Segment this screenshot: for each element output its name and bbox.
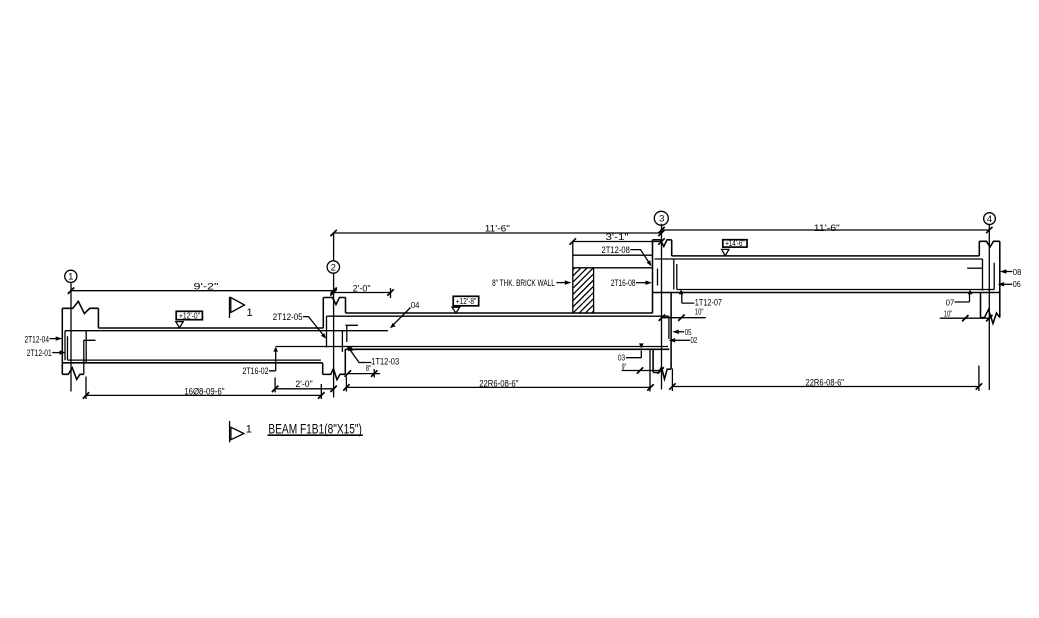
svg-text:10": 10" [944,309,952,319]
label 1T12-07 with leader [682,291,722,309]
label 8" THK. BRICK WALL with leader [492,278,571,289]
svg-text:07: 07 [946,298,955,308]
label 2T16-08 with leader [611,278,652,289]
label 07 with leader [946,292,970,308]
rebar 2T12-08 top bar span 3-4 [655,259,983,291]
svg-text:11'-6": 11'-6" [485,223,510,234]
svg-text:+12'-8": +12'-8" [456,296,477,306]
svg-text:2T16-02: 2T16-02 [243,366,269,377]
column grid 4 [979,241,1000,323]
svg-text:2T12-05: 2T12-05 [273,312,303,323]
dimension 9'-2" [68,281,337,294]
grid line 1 [70,282,72,391]
bar hook tail at grid 4 [967,267,982,269]
label 05 with leader [672,327,691,337]
beam span 3-4 bottom outline [653,292,1000,294]
dimension 22R6-08-6" (span 3-4 stirrups) [669,366,982,392]
bar hook tail at grid 2 [346,325,358,342]
svg-text:08: 08 [1013,267,1022,277]
svg-text:+14'-6": +14'-6" [725,239,745,248]
rebar 2T12-01 bottom bar span 1-2 [68,336,321,360]
dimension 2'-0" (bottom, bar 02 extension) [272,378,337,393]
svg-text:2: 2 [331,262,336,273]
svg-text:10": 10" [695,306,704,316]
label 08 with leader [1000,267,1022,277]
label 04 with leader [390,300,420,329]
svg-text:2T12-04: 2T12-04 [25,334,50,345]
svg-text:1T12-03: 1T12-03 [371,357,399,368]
svg-text:2T16-08: 2T16-08 [611,278,636,289]
svg-text:02: 02 [691,335,698,345]
dimension 10" (left, bar 07) [659,306,706,321]
bar hook inside column 3 [657,269,659,286]
svg-text:4: 4 [987,214,992,225]
svg-text:BEAM F1B1(8"X15"): BEAM F1B1(8"X15") [268,420,362,436]
label 03 with leader [618,351,641,363]
label 1T12-03 with leader [347,345,399,367]
svg-text:1: 1 [68,272,73,283]
bar 07 end arrows [679,289,973,294]
column grid 3 upper [653,240,672,313]
dimension 3'-1" [570,232,665,245]
grid bubble 4 [984,213,996,225]
title BEAM F1B1(8"X15") [268,420,363,436]
dimension 2'-0" (top, bar 04 extension) [330,283,393,298]
svg-text:11'-6": 11'-6" [814,223,840,234]
svg-text:9'-2": 9'-2" [194,281,219,292]
dimension 8" [345,363,380,378]
svg-text:2'-0": 2'-0" [295,379,312,390]
column grid 3 lower [653,292,671,379]
bar hook detail at grid 1 [84,330,96,374]
dimension 11'-6" (span 3-4) [658,223,992,234]
grid bubble 1 [65,270,77,282]
svg-text:2T12-01: 2T12-01 [27,348,52,359]
section marker 1 (title) [230,421,252,442]
label 2T12-05 with leader [273,312,326,339]
grid bubble 3 [654,211,668,225]
svg-text:3: 3 [659,213,664,224]
bar 03 end arrows [349,343,644,350]
dimension 10" (right, bar 07) [940,309,993,322]
grid line 4 [988,224,990,390]
svg-text:04: 04 [411,300,420,310]
beam span 1-2 bottom outline [62,362,322,364]
column grid 2 lower [323,349,346,380]
grid bubble 2 [327,261,339,274]
beam span 2-3 top outline [346,312,653,314]
level marker +12'-8" [452,296,479,313]
rebar bottom bars span 2-3 (02/03/06) [276,346,668,348]
label 06 with leader [998,279,1021,289]
grid line 2 [333,233,335,398]
level marker +14'-6" [722,239,747,256]
beam span 2-3 bottom outline [346,348,670,350]
dimension 16Ø8-09-6" (stirrups span 1-2) [83,377,325,400]
slab band over wall [573,254,653,256]
svg-text:16Ø8-09-6": 16Ø8-09-6" [184,386,224,397]
svg-text:8" THK. BRICK WALL: 8" THK. BRICK WALL [492,278,555,289]
svg-text:1: 1 [246,423,252,435]
label 02 with leader [669,335,698,345]
beam span 3-4 top outline [672,255,980,257]
svg-text:1: 1 [247,307,253,319]
label 2T12-08 with leader [602,245,652,266]
rebar 2T16 bottom bar span 3-4 [677,263,994,290]
dimension 22R6-08-6" (span 2-3 stirrups) [343,350,654,392]
dimension 9" [622,361,664,373]
label 2T12-04 [25,334,63,345]
beam span 1-2 top outline [98,327,323,329]
svg-text:+12'-0": +12'-0" [179,310,200,320]
dimension 11'-6" (span 2-3) [330,223,664,236]
svg-text:22R6-08-6": 22R6-08-6" [479,378,518,389]
column grid 1 [62,301,98,379]
svg-text:2'-0": 2'-0" [353,283,371,294]
rebar 2T12-04 top bar span 1-2 [65,331,388,361]
rebar 2T12-05 top bar span 2-3 [327,316,669,339]
section marker 1 (plan) [230,297,253,319]
svg-text:8": 8" [366,363,371,373]
svg-text:2T12-08: 2T12-08 [602,245,630,256]
svg-text:06: 06 [1013,279,1021,289]
brick wall hatch [573,242,653,314]
level marker +12'-0" [176,310,203,328]
grid line 3 [661,224,663,390]
svg-text:3'-1": 3'-1" [606,232,629,243]
label 2T12-01 [27,348,66,359]
column grid 2 upper [323,298,345,329]
rebar 2T12-05 hook at grid 2 [326,316,328,347]
rebar 2T16-02 extension into span 1-2 with leader [243,347,279,377]
svg-text:22R6-08-6": 22R6-08-6" [806,377,845,388]
